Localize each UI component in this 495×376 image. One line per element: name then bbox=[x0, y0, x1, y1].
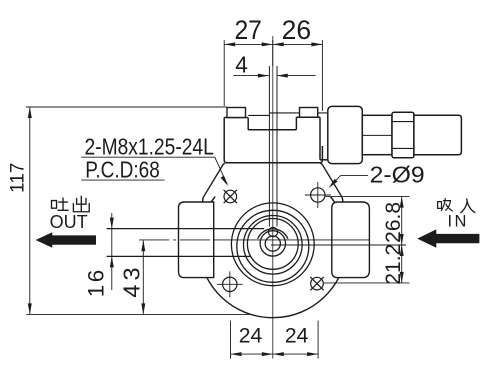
svg-text:43: 43 bbox=[119, 263, 145, 297]
keyway slot left line bbox=[268, 66, 270, 227]
arrowhead 21.2 bottom bbox=[400, 272, 404, 283]
boss top edge bbox=[296, 116, 320, 118]
body recess bottom bbox=[248, 129, 296, 131]
shaft circle r7.6 bbox=[265, 236, 280, 251]
out port block left bbox=[179, 202, 214, 278]
arrowhead 117 top bbox=[28, 107, 32, 118]
dim 27 left extension bbox=[223, 40, 225, 106]
dim 24 right extension bbox=[317, 321, 319, 359]
svg-text:2-Ø9: 2-Ø9 bbox=[370, 162, 425, 188]
port centerline dash-dot bbox=[139, 239, 214, 241]
arrowhead 27 left bbox=[224, 42, 235, 46]
vertical centerline bbox=[272, 36, 274, 359]
arrowhead 16 bottom bbox=[110, 256, 114, 267]
relief valve neck bbox=[362, 115, 392, 154]
arrowhead 24 center-right bbox=[262, 352, 273, 356]
arrowhead 27 right bbox=[262, 42, 273, 46]
label M8 underline bbox=[81, 156, 215, 158]
dim 26.8 top extension bbox=[325, 196, 410, 198]
bolt head tab left bbox=[227, 108, 246, 118]
hub arc r16.5 bbox=[258, 229, 288, 239]
relief valve nut facet bottom bbox=[392, 147, 414, 149]
CJK glyph ru (in) bbox=[461, 199, 475, 213]
arrowhead 24 center-left bbox=[273, 352, 284, 356]
keyway small circle bbox=[268, 227, 277, 236]
bolt head tab right bbox=[300, 108, 318, 118]
body horizontal passage line bbox=[270, 112, 329, 114]
body left shelf line bbox=[248, 114, 269, 116]
relief valve nut bbox=[392, 112, 414, 158]
port bore bottom line bbox=[107, 255, 251, 257]
svg-text:24: 24 bbox=[239, 323, 263, 347]
relief valve adjust screw bbox=[414, 115, 462, 154]
pilot circle r36 bbox=[237, 210, 309, 282]
dim 27-26 line bbox=[224, 43, 322, 45]
arrowhead 26 right bbox=[311, 42, 322, 46]
arrowhead 4 left bbox=[258, 74, 269, 78]
shaft circle r12.7 bbox=[260, 231, 285, 256]
bolt hole bottom-right threaded bbox=[310, 277, 323, 290]
svg-text:26.8: 26.8 bbox=[382, 202, 405, 243]
arrowhead 26 left bbox=[273, 42, 284, 46]
leader dia9 horizontal bbox=[341, 174, 368, 176]
svg-text:24: 24 bbox=[285, 323, 309, 347]
arrowhead leader M8 bbox=[221, 176, 228, 186]
inner rotor circle r25.4 bbox=[247, 219, 298, 270]
dim 21.2 bottom extension bbox=[324, 282, 410, 284]
svg-text:IN: IN bbox=[447, 213, 469, 231]
dim 4 line right bbox=[277, 75, 316, 77]
flange bottom extension line bbox=[26, 313, 251, 315]
dim 4 line left bbox=[233, 75, 269, 77]
label PCD underline bbox=[81, 179, 164, 181]
svg-text:27: 27 bbox=[234, 15, 262, 45]
arrowhead leader dia9 bbox=[329, 179, 338, 188]
outer rotor circle r29.3 bbox=[243, 216, 302, 275]
arrowhead 24 outer-right bbox=[307, 352, 318, 356]
dim 117 line bbox=[29, 107, 31, 314]
port bore top line bbox=[107, 228, 265, 230]
main horizontal centerline right bbox=[271, 244, 406, 246]
arrowhead 21.2 top bbox=[400, 245, 404, 256]
boss left edge bbox=[295, 117, 297, 130]
arrowhead 4 right bbox=[277, 74, 288, 78]
dim 24 left extension bbox=[230, 321, 232, 359]
arrowhead 117 bottom bbox=[28, 303, 32, 314]
arrowhead 26.8 top bbox=[400, 197, 404, 208]
body outline bbox=[224, 118, 322, 163]
arrowhead 43 top bbox=[141, 240, 145, 251]
dim 27-26 center extension bbox=[272, 40, 274, 66]
relief valve nut facet top bbox=[392, 121, 414, 123]
in port block right bbox=[332, 202, 370, 278]
bolt hole top-left threaded bbox=[224, 190, 237, 203]
bolt hole top-right plain bbox=[305, 182, 331, 208]
svg-text:4: 4 bbox=[235, 51, 248, 77]
flange chamfer top-right bbox=[321, 164, 343, 202]
dim 117 top extension line bbox=[26, 106, 227, 108]
body top edge bbox=[224, 117, 248, 119]
CJK glyph chu (out) bbox=[73, 196, 89, 211]
svg-text:OUT: OUT bbox=[50, 212, 88, 232]
port centerline solid through body bbox=[214, 239, 370, 241]
svg-text:117: 117 bbox=[8, 163, 29, 193]
dimension texts bbox=[8, 15, 312, 348]
CJK glyph tu (spit) bbox=[52, 196, 475, 212]
keyway slot right line bbox=[276, 66, 278, 227]
arrowhead 24 outer-left bbox=[231, 352, 242, 356]
leader M8 bbox=[215, 157, 227, 184]
svg-text:21.2: 21.2 bbox=[382, 244, 405, 285]
svg-text:26: 26 bbox=[282, 15, 312, 45]
OUT flow arrow bbox=[36, 232, 96, 248]
arrowhead 43 bottom bbox=[141, 303, 145, 314]
IN flow arrow bbox=[417, 229, 479, 247]
flange chamfer top-left bbox=[203, 164, 225, 202]
bore circle r41 bbox=[231, 203, 314, 286]
relief valve body block bbox=[328, 106, 363, 163]
svg-text:P.C.D:68: P.C.D:68 bbox=[85, 156, 160, 182]
boss right edge bbox=[319, 117, 321, 160]
arrowhead 16 top bbox=[110, 218, 114, 229]
dim 26.8-21.2 line bbox=[401, 197, 403, 283]
CJK glyph xi (suck) bbox=[438, 198, 453, 210]
arrowhead 26.8 bottom bbox=[400, 234, 404, 245]
flange outer arc bbox=[198, 197, 347, 318]
dim 26 right extension bbox=[321, 40, 323, 111]
dim 24-24 line bbox=[231, 353, 319, 355]
dim 43 line bbox=[142, 240, 144, 314]
bolt hole bottom-left plain bbox=[217, 271, 243, 297]
leader dia9 diagonal bbox=[330, 175, 341, 186]
dim 16 line bbox=[111, 213, 113, 290]
svg-text:16: 16 bbox=[83, 267, 108, 297]
relief valve neck line bbox=[362, 134, 392, 136]
body step vertical bbox=[247, 118, 249, 130]
valve connector line bbox=[320, 159, 328, 161]
